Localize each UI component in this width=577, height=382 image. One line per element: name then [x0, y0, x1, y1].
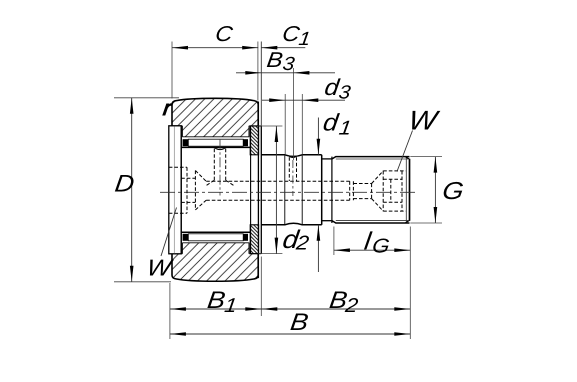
- label W right with leader: [397, 106, 442, 172]
- stud flange seal lower (dense hatch): [250, 225, 258, 254]
- thread section G: [332, 157, 410, 223]
- svg-text:G: G: [441, 178, 466, 205]
- dimension d2: [258, 126, 310, 255]
- flange rim right face: [258, 126, 261, 254]
- radial lubrication hole 2 in groove (hidden): [289, 156, 296, 196]
- dimension d3: [262, 74, 352, 154]
- dimension B3: [236, 48, 335, 160]
- ring bore step left: [181, 126, 183, 254]
- stud flange seal upper (dense hatch): [250, 126, 258, 155]
- dimension B2: [261, 287, 410, 317]
- dimension lG: [334, 227, 410, 340]
- dimension d1: [317, 110, 353, 272]
- ring right face and flange edge: [257, 102, 259, 279]
- dimension C: [172, 22, 258, 101]
- svg-text:D: D: [113, 171, 136, 198]
- outer ring lower section (hatched): [172, 243, 258, 281]
- dimension D: [113, 98, 179, 282]
- stud d1 cylinder with relief groove: [261, 155, 321, 225]
- stud raceway outline: [181, 126, 250, 254]
- ring bore step right / flange left face: [249, 126, 251, 254]
- dimension C1: [261, 22, 311, 126]
- left end plate (washer): [169, 126, 181, 254]
- outer ring upper section (hatched): [172, 98, 258, 136]
- needle roller upper: [183, 139, 248, 146]
- hex socket right end (hidden): [350, 171, 406, 211]
- svg-text:B: B: [289, 309, 310, 336]
- dimension B: [170, 309, 410, 336]
- svg-text:G: G: [371, 236, 391, 258]
- label r with leader: [162, 97, 174, 120]
- hex socket left end (hidden): [169, 167, 206, 213]
- radial lubrication hole 1 (hidden): [206, 140, 233, 196]
- central lubrication bore (hidden): [206, 181, 350, 200]
- label W left with leader: [145, 208, 176, 281]
- dimension B1: [170, 257, 261, 340]
- main centerline: [160, 191, 417, 193]
- dimension G: [410, 157, 465, 223]
- relief groove edge lines: [285, 156, 302, 224]
- neck before thread: [322, 159, 332, 221]
- needle roller lower: [183, 234, 248, 241]
